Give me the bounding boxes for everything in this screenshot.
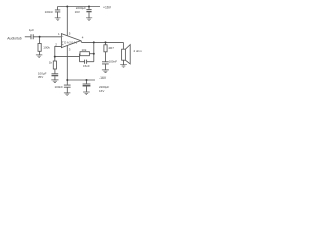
svg-text:16V: 16V <box>99 89 104 93</box>
svg-text:3: 3 <box>69 48 71 52</box>
svg-text:1µF: 1µF <box>29 28 34 32</box>
capacitor C2 100nF lead <box>57 7 59 10</box>
junction R3 right <box>93 53 95 55</box>
junction pin5 rail <box>66 6 68 8</box>
capacitor C5 15nF <box>85 60 87 64</box>
svg-text:TDA2040: TDA2040 <box>62 41 78 45</box>
junction output zobel <box>105 41 107 43</box>
wire 4R7 lead <box>105 42 107 44</box>
wire C8 to ground <box>86 87 88 92</box>
junction C8 rail <box>86 79 88 81</box>
wire R3 left lead <box>79 54 82 62</box>
wire output <box>81 41 124 43</box>
capacitor C8 2200uF <box>83 83 91 85</box>
junction output feedback <box>93 41 95 43</box>
resistor R2 1k <box>53 61 56 69</box>
ground under speaker <box>120 65 127 68</box>
junction pin3 rail <box>66 79 68 81</box>
capacitor C8 2200uF lead <box>86 80 88 84</box>
capacitor C3 2200uF lead <box>88 7 90 10</box>
ground under R1 <box>36 55 42 58</box>
wire feedback from node A <box>55 56 80 58</box>
wire C2 to ground <box>57 12 59 18</box>
op-amp U1 TDA2040 <box>61 34 80 48</box>
wire R3 right lead <box>89 53 93 55</box>
svg-text:Audio/tub: Audio/tub <box>7 37 21 41</box>
svg-text:1k: 1k <box>49 61 53 65</box>
svg-text:35V: 35V <box>38 75 43 79</box>
wire R2 to C4 <box>54 69 56 74</box>
wire input to pin 1 <box>33 36 61 38</box>
svg-text:16V: 16V <box>75 10 80 14</box>
wire C3 to ground <box>88 12 90 17</box>
junction C3 rail <box>88 6 90 8</box>
wire feedback right vertical <box>93 42 95 61</box>
svg-text:100nF: 100nF <box>109 60 118 64</box>
wire C4 to ground <box>54 76 56 80</box>
wire to ground <box>39 51 41 55</box>
wire top supply rail <box>58 6 101 8</box>
wire pin5 supply lead <box>66 7 68 36</box>
wire R4 to C6 <box>105 52 107 62</box>
capacitor C7 100nF lead <box>66 80 68 85</box>
wire C5 bottom branch <box>80 61 94 63</box>
junction node A <box>54 56 56 58</box>
svg-text:4R7: 4R7 <box>108 46 114 50</box>
wire pin3 negative supply lead <box>66 45 68 80</box>
junction input node <box>39 36 41 38</box>
capacitor C3 2200uF <box>86 9 91 11</box>
speaker LS1 <box>122 49 126 60</box>
label minus input <box>62 44 64 47</box>
wire bottom negative rail <box>67 79 95 81</box>
ground under C7 <box>64 93 71 95</box>
node: audio input wire <box>25 36 31 38</box>
svg-text:4: 4 <box>82 36 84 40</box>
svg-text:100nF: 100nF <box>55 85 64 89</box>
wire to speaker <box>122 42 124 49</box>
resistor R3 10k <box>80 52 89 56</box>
capacitor C4 100uF <box>52 73 59 75</box>
svg-text:100k: 100k <box>43 46 50 50</box>
ground under C4 <box>51 80 58 83</box>
ground under C8 <box>83 92 90 95</box>
wire 100k lead <box>39 37 41 44</box>
ground under C6 <box>102 70 109 73</box>
resistor R1 100k <box>38 44 41 52</box>
svg-text:100nF: 100nF <box>45 10 54 14</box>
svg-text:4 ohm: 4 ohm <box>133 49 142 53</box>
svg-text:15nF: 15nF <box>83 64 90 68</box>
capacitor C7 100nF <box>64 85 71 87</box>
svg-text:-16V: -16V <box>99 76 107 80</box>
svg-text:+16V: +16V <box>103 5 112 9</box>
ground under C2 <box>55 18 61 21</box>
svg-text:10k: 10k <box>82 48 87 52</box>
capacitor C6 100nF <box>102 62 109 64</box>
svg-text:5: 5 <box>69 32 71 36</box>
wire C6 to ground <box>105 64 107 70</box>
capacitor C1 1uF <box>31 34 33 39</box>
svg-text:1: 1 <box>58 32 60 36</box>
wire C7 to ground <box>66 87 68 92</box>
resistor R4 4R7 <box>104 45 107 52</box>
svg-text:+: + <box>62 35 64 38</box>
wire pin2 to node A <box>55 46 62 61</box>
ground under C3 <box>86 18 92 21</box>
wire speaker to ground <box>123 60 125 64</box>
capacitor C2 100nF <box>55 10 60 12</box>
